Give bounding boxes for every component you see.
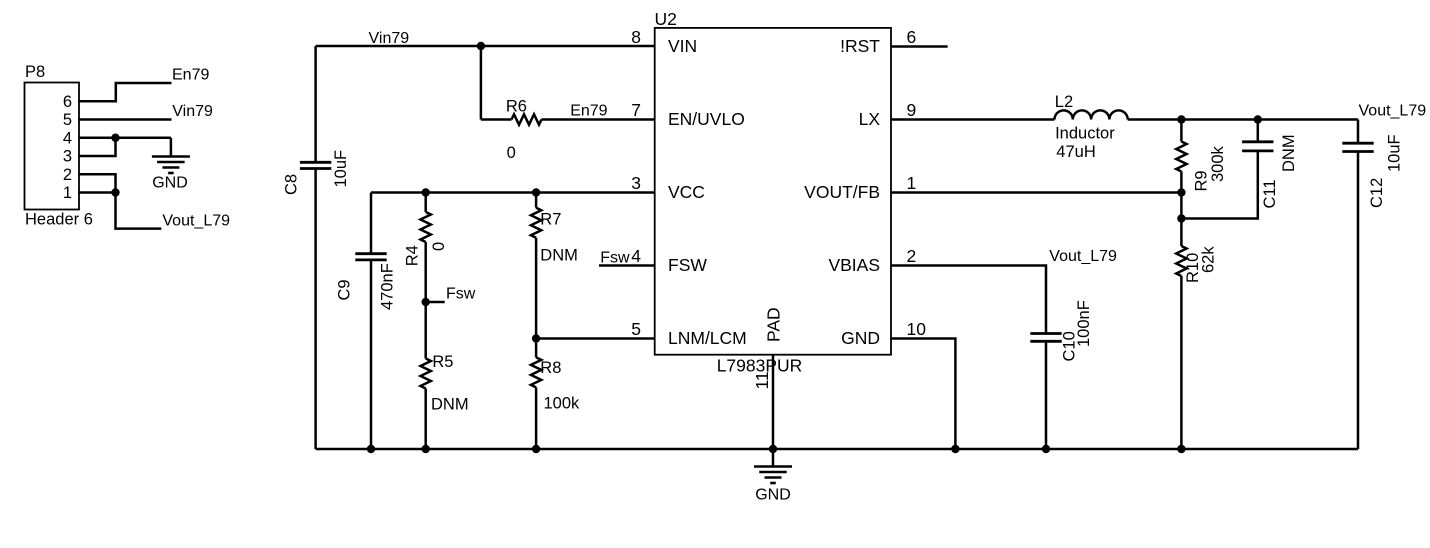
U2 pin name VIN: [668, 36, 697, 56]
net label Fsw at pin 4: [600, 250, 630, 267]
U2 pin 9 number: [907, 100, 917, 120]
wire inductor to Vout: [1128, 118, 1358, 121]
resistor R10 refdes: [1184, 253, 1202, 283]
svg-text:En79: En79: [172, 67, 209, 84]
resistor R9 value 300k: [1209, 145, 1227, 182]
capacitor C11 refdes: [1261, 179, 1279, 208]
resistor R6: [512, 114, 542, 124]
svg-text:9: 9: [907, 100, 917, 120]
U2 part number L7983PUR: [717, 356, 803, 376]
resistor R7 value DNM: [540, 247, 578, 265]
svg-text:LX: LX: [859, 109, 881, 129]
resistor R7 refdes: [540, 211, 561, 229]
wire Vin79 down to R6: [480, 46, 483, 120]
svg-text:1: 1: [907, 173, 917, 193]
wire VCC to R4: [424, 193, 427, 213]
wire LX pin 9 to inductor: [891, 118, 1055, 121]
resistor R8 value 100k: [544, 395, 581, 413]
wire VCC to R7: [535, 193, 538, 208]
svg-text:C9: C9: [336, 279, 354, 300]
svg-text:L2: L2: [1055, 93, 1073, 111]
node divider/C11 junction: [1177, 214, 1185, 222]
svg-text:DNM: DNM: [1280, 134, 1298, 172]
node FB junction: [1177, 188, 1185, 196]
wire LX to R9: [1180, 120, 1183, 142]
U2 pin name VCC: [668, 182, 705, 202]
node R8/rail junction: [532, 445, 540, 453]
U2 refdes label: [655, 9, 677, 29]
svg-text:GND: GND: [841, 328, 880, 348]
svg-text:3: 3: [631, 173, 641, 193]
wire C11 top lead: [1257, 120, 1260, 142]
wire P8 to Vout_L79: [116, 193, 162, 229]
svg-text:8: 8: [631, 27, 641, 47]
resistor R10 value 62k: [1200, 246, 1218, 273]
svg-text:10uF: 10uF: [332, 150, 350, 188]
U2 pin name FSW: [668, 255, 707, 275]
capacitor C9 value 470nF: [379, 263, 397, 310]
svg-text:7: 7: [631, 100, 641, 120]
wire VCC rail pin 3: [371, 191, 655, 194]
net label Vin79 top: [369, 30, 410, 47]
wire R10 to ground rail: [1180, 276, 1183, 449]
wire GND pin 10: [891, 339, 955, 450]
resistor R4 refdes: [404, 245, 422, 266]
net label En79: [172, 67, 209, 84]
U2 pin 2 number: [907, 246, 917, 266]
svg-text:DNM: DNM: [431, 396, 469, 414]
capacitor C9: [355, 254, 386, 260]
wire C11 bottom lead: [1181, 151, 1257, 219]
wire C10 bottom lead: [1045, 341, 1048, 449]
wire Vout to C12: [1357, 120, 1360, 144]
node Fsw junction: [422, 298, 430, 306]
node pin10/rail junction: [951, 445, 959, 453]
inductor L2 name: [1055, 125, 1115, 143]
connector P8 refdes label: [25, 63, 45, 81]
wire C8 top lead: [314, 46, 317, 162]
wire R8 to ground rail: [535, 387, 538, 449]
wire C9 top lead: [370, 193, 373, 254]
node Vin79/R6 junction: [477, 42, 485, 50]
P8 pin 6 number: [63, 93, 72, 111]
wire R9 to FB node: [1180, 172, 1183, 193]
svg-text:100nF: 100nF: [1075, 300, 1093, 347]
svg-text:VIN: VIN: [668, 36, 697, 56]
svg-text:6: 6: [907, 27, 917, 47]
U2 pin 5 number: [631, 319, 641, 339]
wire ground rail: [316, 448, 1358, 451]
wire R4 to Fsw node: [424, 242, 427, 302]
U2 pin name EN/UVLO: [668, 109, 745, 129]
resistor R8: [531, 357, 541, 387]
svg-text:2: 2: [907, 246, 917, 266]
svg-text:En79: En79: [570, 103, 607, 120]
svg-text:Vout_L79: Vout_L79: [1049, 248, 1117, 265]
svg-text:GND: GND: [755, 487, 791, 504]
svg-text:4: 4: [63, 130, 72, 148]
svg-text:470nF: 470nF: [379, 263, 397, 310]
net label Fsw: [446, 286, 476, 303]
node LX/R9 junction: [1177, 115, 1185, 123]
svg-text:100k: 100k: [544, 395, 581, 413]
U2 pin 3 number: [631, 173, 641, 193]
svg-text:Vin79: Vin79: [172, 103, 213, 120]
connector P8 body: [25, 83, 80, 210]
wire to resistor R6: [481, 118, 512, 121]
svg-text:R5: R5: [432, 353, 453, 371]
svg-text:Vin79: Vin79: [369, 30, 410, 47]
svg-text:Fsw: Fsw: [446, 286, 476, 303]
U2 pin 11 number: [752, 371, 772, 389]
svg-text:0: 0: [507, 144, 516, 162]
node LX/C11 junction: [1254, 115, 1262, 123]
net label Vout_L79 at VBIAS: [1049, 248, 1117, 265]
wire R7 to LNM node: [535, 238, 538, 339]
svg-text:U2: U2: [655, 9, 677, 29]
svg-text:2: 2: [63, 166, 72, 184]
svg-text:6: 6: [63, 93, 72, 111]
capacitor C9 refdes: [336, 279, 354, 300]
capacitor C10 refdes: [1061, 331, 1079, 361]
capacitor C8 value 10uF: [332, 150, 350, 188]
svg-text:FSW: FSW: [668, 255, 707, 275]
wire FSW pin 4 stub: [599, 264, 655, 267]
U2 pin name GND: [841, 328, 880, 348]
node R10/rail junction: [1177, 445, 1185, 453]
node C10/rail junction: [1042, 445, 1050, 453]
svg-text:Fsw: Fsw: [600, 250, 630, 267]
node C9/rail junction: [367, 445, 375, 453]
capacitor C12 value 10uF: [1386, 134, 1404, 172]
svg-text:10: 10: [907, 319, 927, 339]
U2 pin 10 number: [907, 319, 927, 339]
capacitor C12: [1342, 143, 1373, 151]
svg-text:VOUT/FB: VOUT/FB: [804, 182, 880, 202]
wire Vin79 rail to VIN pin 8: [316, 45, 656, 48]
svg-text:!RST: !RST: [840, 36, 880, 56]
wire Fsw node to R5: [424, 302, 427, 359]
U2 pin name VOUT/FB: [804, 182, 880, 202]
svg-text:1: 1: [63, 184, 72, 202]
wire R5 to ground rail: [424, 389, 427, 450]
node VCC/R4 junction: [422, 188, 430, 196]
U2 pin 8 number: [631, 27, 641, 47]
inductor L2 refdes: [1055, 93, 1073, 111]
resistor R6 value 0: [507, 144, 516, 162]
wire PAD pin 11 stub: [772, 355, 775, 449]
inductor L2 value 47uH: [1056, 143, 1095, 161]
resistor R9 refdes: [1193, 170, 1211, 191]
wire C9 bottom lead: [370, 260, 373, 449]
resistor R8 refdes: [540, 359, 561, 377]
resistor R4 value 0: [430, 242, 448, 251]
svg-text:PAD: PAD: [764, 307, 784, 342]
wire LNM node to R8: [535, 339, 538, 358]
capacitor C10 value 100nF: [1075, 300, 1093, 347]
svg-text:62k: 62k: [1200, 246, 1218, 273]
net label En79 at pin 7: [570, 103, 607, 120]
wire ground symbol stub: [772, 449, 775, 466]
net label Vout_L79 near P8: [162, 213, 230, 230]
svg-text:5: 5: [63, 111, 72, 129]
node P8 pin 1 junction: [111, 188, 119, 196]
U2 pin name LX: [859, 109, 881, 129]
svg-text:C12: C12: [1368, 178, 1386, 208]
ground label GND: [152, 175, 188, 192]
P8 pin 4 number: [63, 130, 72, 148]
op-amp U2 body L7983PUR: [655, 28, 891, 355]
svg-text:4: 4: [631, 246, 641, 266]
svg-text:47uH: 47uH: [1056, 143, 1095, 161]
svg-text:Header 6: Header 6: [25, 211, 93, 229]
P8 pin 5 number: [63, 111, 72, 129]
resistor R6 refdes: [506, 98, 527, 116]
ground label GND bottom: [755, 487, 791, 504]
U2 pin 1 number: [907, 173, 917, 193]
P8 pin 2 number: [63, 166, 72, 184]
resistor R7: [531, 208, 541, 238]
svg-text:GND: GND: [152, 175, 188, 192]
svg-text:11: 11: [752, 371, 772, 389]
wire FB to divider node: [1180, 193, 1183, 219]
U2 pin name VBIAS: [828, 255, 880, 275]
ground GND bottom: [754, 467, 792, 484]
svg-text:10uF: 10uF: [1386, 134, 1404, 172]
svg-text:R6: R6: [506, 98, 527, 116]
node VCC/R7 junction: [532, 188, 540, 196]
capacitor C8 refdes: [283, 174, 301, 195]
svg-text:Inductor: Inductor: [1055, 125, 1115, 143]
svg-text:C11: C11: [1261, 179, 1279, 208]
wire VOUT/FB pin 1: [891, 191, 1181, 194]
U2 pin 4 number: [631, 246, 641, 266]
wire P8 pin 5 Vin79: [79, 118, 172, 121]
svg-text:P8: P8: [25, 63, 45, 81]
svg-text:LNM/LCM: LNM/LCM: [668, 328, 747, 348]
svg-text:EN/UVLO: EN/UVLO: [668, 109, 745, 129]
wire P8 pin 6 to En79: [79, 83, 172, 101]
capacitor C11: [1242, 142, 1273, 151]
ground GND near P8: [152, 157, 190, 174]
wire P8 pin 2 jog down: [79, 174, 116, 192]
resistor R10: [1176, 246, 1186, 276]
U2 pin name PAD: [764, 307, 784, 342]
node P8 pin 4 junction: [111, 134, 119, 142]
resistor R9: [1176, 142, 1186, 172]
svg-text:Vout_L79: Vout_L79: [162, 213, 230, 230]
node PAD/rail junction: [769, 445, 777, 453]
svg-text:R4: R4: [404, 245, 422, 266]
wire C8 bottom lead: [314, 169, 317, 450]
wire VBIAS pin 2: [891, 266, 1046, 334]
inductor L2: [1055, 110, 1128, 119]
U2 pin name LNM/LCM: [668, 328, 747, 348]
svg-text:VBIAS: VBIAS: [828, 255, 880, 275]
resistor R5 value DNM: [431, 396, 469, 414]
wire Fsw stub: [426, 301, 445, 304]
capacitor C11 value DNM: [1280, 134, 1298, 172]
svg-text:R9: R9: [1193, 170, 1211, 191]
capacitor C12 refdes: [1368, 178, 1386, 208]
node R5/rail junction: [422, 445, 430, 453]
svg-text:DNM: DNM: [540, 247, 578, 265]
U2 pin 6 number: [907, 27, 917, 47]
wire P8 pin 3 jog up: [79, 138, 116, 156]
P8 pin 1 number: [63, 184, 72, 202]
wire P8 pin 4 to ground: [79, 137, 171, 140]
wire LNM/LCM pin 5: [536, 337, 655, 340]
svg-text:R7: R7: [540, 211, 561, 229]
svg-text:5: 5: [631, 319, 641, 339]
U2 pin name !RST: [840, 36, 880, 56]
resistor R5: [421, 359, 431, 389]
wire !RST pin 6 stub: [891, 45, 948, 48]
wire ground stub: [170, 138, 173, 156]
P8 pin 3 number: [63, 148, 72, 166]
svg-text:C8: C8: [283, 174, 301, 195]
resistor R5 refdes: [432, 353, 453, 371]
capacitor C8: [300, 162, 331, 168]
wire P8 pin 1: [79, 191, 116, 194]
net label Vout_L79 top right: [1359, 103, 1427, 120]
svg-text:3: 3: [63, 148, 72, 166]
capacitor C10: [1030, 334, 1061, 342]
resistor R4: [421, 212, 431, 242]
svg-text:300k: 300k: [1209, 145, 1227, 182]
wire R6 to EN/UVLO pin 7: [542, 118, 656, 121]
U2 pin 7 number: [631, 100, 641, 120]
svg-text:Vout_L79: Vout_L79: [1359, 103, 1427, 120]
wire divider node to R10: [1180, 219, 1183, 247]
node LNM/R8 junction: [532, 334, 540, 342]
net label Vin79: [172, 103, 213, 120]
svg-text:VCC: VCC: [668, 182, 705, 202]
wire C12 bottom lead: [1357, 152, 1360, 450]
connector P8 value label: [25, 211, 93, 229]
svg-text:0: 0: [430, 242, 448, 251]
svg-text:R8: R8: [540, 359, 561, 377]
